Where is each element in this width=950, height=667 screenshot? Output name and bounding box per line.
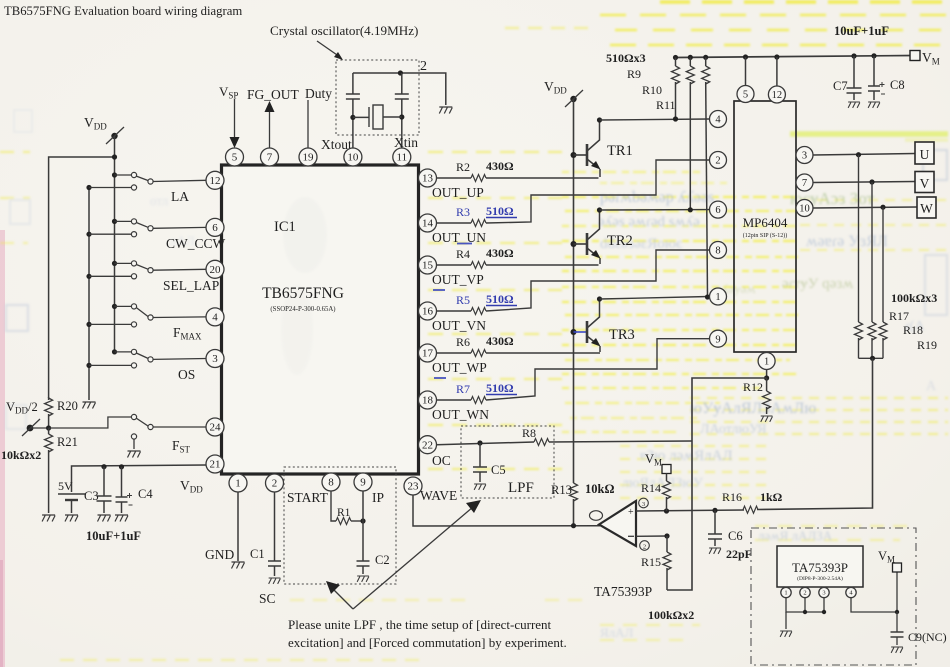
svg-text:Please unite LPF , the time se: Please unite LPF , the time setup of [di… [288, 617, 552, 632]
capacitor C6 [714, 510, 716, 534]
svg-text:Crystal oscillator(4.19MHz): Crystal oscillator(4.19MHz) [270, 23, 418, 38]
svg-text:ǝʎǝs əʍɾǝd sʍʎə: ǝʎǝs əʍɾǝd sʍʎə [598, 214, 700, 230]
svg-text:LPF: LPF [508, 480, 534, 496]
svg-text:5: 5 [743, 90, 748, 101]
svg-text:C7: C7 [833, 79, 848, 93]
svg-text:MP6404: MP6404 [743, 215, 788, 230]
ground rail C [42, 515, 55, 522]
junction V sense [869, 179, 874, 184]
pin 15 [419, 256, 437, 274]
svg-text:R14: R14 [641, 481, 661, 495]
svg-text:люЯлАЛЗюУ: люЯлАЛЗюУ [622, 476, 703, 491]
MP pin 3 right [796, 147, 813, 164]
IC MP6404 body [734, 101, 796, 352]
svg-text:R7: R7 [456, 382, 470, 396]
wire comparator plus input [636, 510, 744, 511]
wire MP pin7 to V [813, 182, 915, 183]
crystal oscillator dashed box [336, 60, 419, 135]
ground C8 [868, 102, 880, 108]
wire MP pin12 riser [774, 54, 779, 59]
svg-text:17: 17 [422, 348, 434, 360]
svg-text:24: 24 [210, 422, 222, 434]
svg-text:R1: R1 [337, 507, 351, 519]
svg-text:R12: R12 [743, 380, 763, 394]
svg-text:(12pin SIP (S-12)): (12pin SIP (S-12)) [743, 232, 787, 239]
svg-text:(SSOP24-P-300-0.65A): (SSOP24-P-300-0.65A) [270, 306, 335, 313]
svg-text:C4: C4 [138, 487, 153, 501]
svg-text:R4: R4 [456, 247, 470, 261]
capacitor C9 [896, 612, 898, 632]
wire V_M top bus [676, 56, 914, 58]
svg-text:OUT_WP: OUT_WP [432, 360, 487, 375]
wire TR1 collector to MP pin4 [600, 119, 710, 120]
wire pin8 down [331, 491, 336, 521]
svg-text:отл: отл [150, 193, 169, 208]
svg-text:10kΩ: 10kΩ [585, 482, 614, 496]
resistor R16 [743, 506, 758, 513]
wire out row OUT_UN left part [437, 222, 472, 224]
wire out row OUT_VP left part [437, 264, 472, 266]
FG_OUT arrow out of pin 7 [265, 101, 275, 112]
svg-text:лəʍЯ лАЛЗА: лəʍЯ лАЛЗА [758, 528, 833, 543]
scan edge stain [0, 230, 5, 667]
svg-text:8: 8 [715, 246, 720, 257]
switch S1 row [112, 172, 117, 177]
junction R10 pin6 wire [688, 207, 693, 212]
svg-text:C6: C6 [728, 529, 743, 543]
resistor R9 [673, 55, 678, 60]
pin 17 [419, 344, 437, 362]
ground C2 [357, 576, 369, 582]
pin 13 [419, 169, 437, 187]
pin 24 [206, 418, 224, 436]
switch S6 F_ST [49, 417, 132, 428]
svg-text:GND: GND [205, 547, 234, 562]
switch S2 row [112, 219, 117, 224]
svg-text:SEL_LAP: SEL_LAP [163, 278, 219, 293]
wire crystal top bus [353, 73, 446, 105]
capacitor C2 [362, 491, 364, 561]
wire pin21 supply [72, 465, 207, 492]
capacitor xtal right [401, 73, 403, 94]
svg-text:1: 1 [715, 292, 720, 303]
svg-text:11: 11 [397, 152, 408, 164]
TA pin 3 [823, 586, 825, 589]
pin 9 [354, 473, 372, 491]
svg-text:SC: SC [259, 591, 276, 606]
scan artifact blue marks [433, 244, 472, 379]
svg-text:C9(NC): C9(NC) [908, 630, 947, 644]
wire TA pin4 to V_M [851, 573, 897, 613]
wire out row OUT_VN left part [437, 310, 472, 312]
wire WAVE to comparator [413, 495, 600, 526]
wire TR2 collector to MP pin6 [600, 209, 710, 211]
svg-text:R6: R6 [456, 335, 470, 349]
svg-text:А: А [926, 379, 937, 394]
svg-text:OS: OS [178, 367, 195, 382]
wire out row OUT_UP left part [437, 177, 472, 179]
svg-text:4: 4 [715, 115, 721, 126]
TA pin 4 [850, 586, 852, 589]
ground TA [780, 631, 792, 637]
resistor R3 [471, 220, 486, 227]
svg-text:TB6575FNG Evaluation board wir: TB6575FNG Evaluation board wiring diagra… [4, 4, 242, 18]
svg-text:C2: C2 [375, 553, 390, 567]
svg-text:1: 1 [764, 357, 769, 368]
svg-text:excitation] and [Forced commut: excitation] and [Forced commutation] by … [288, 635, 567, 650]
pin 5 [226, 148, 244, 166]
wire OUT_UN to MP pin2 [486, 160, 709, 223]
svg-text:CW_CCW: CW_CCW [166, 236, 226, 251]
MP pin 9 left [710, 330, 727, 347]
underline mark R5 [486, 305, 517, 307]
svg-text:100kΩx3: 100kΩx3 [891, 291, 937, 305]
ground pin1 [232, 562, 245, 569]
resistor R2 [471, 175, 486, 182]
transistor TR2 [571, 241, 577, 247]
svg-text:5: 5 [232, 152, 238, 164]
svg-text:TR2: TR2 [607, 233, 633, 249]
ground battery [65, 515, 78, 522]
wire TA pins to ground bus [786, 598, 824, 613]
switch S3 row [112, 261, 117, 266]
TA pin 1 [785, 586, 787, 589]
svg-text:23: 23 [408, 481, 420, 493]
svg-text:7: 7 [267, 152, 273, 164]
svg-text:2: 2 [272, 478, 278, 490]
capacitor C4 electrolytic [121, 467, 123, 497]
scan smudge inside IC1 [281, 197, 327, 375]
svg-text:TA75393P: TA75393P [792, 560, 848, 575]
junction xtal left [350, 115, 355, 120]
junction R13 / wave [571, 523, 576, 528]
MP pin 2 left [710, 152, 727, 169]
svg-text:R5: R5 [456, 293, 470, 307]
svg-text:16: 16 [422, 306, 434, 318]
svg-text:21: 21 [210, 459, 221, 471]
svg-text:10: 10 [799, 204, 810, 215]
wire OUT_WN to MP pin9 [486, 339, 710, 400]
V_SP arrow into pin 5 [234, 99, 236, 139]
svg-text:R16: R16 [722, 490, 742, 504]
svg-text:C8: C8 [890, 78, 905, 92]
wire OC line cont [549, 441, 692, 442]
svg-text:2: 2 [803, 590, 806, 597]
IC U-IC1 TB6575FNG body [222, 165, 419, 474]
svg-text:15: 15 [422, 260, 434, 272]
svg-text:10: 10 [347, 152, 359, 164]
resistor R4 [471, 262, 486, 269]
svg-text:2: 2 [643, 544, 646, 551]
svg-text:U: U [920, 147, 930, 162]
switch S4 row [112, 304, 117, 309]
svg-text:IC1: IC1 [274, 219, 296, 235]
MP pin 6 left [710, 201, 727, 218]
junction R11 pin1 wire [705, 294, 710, 299]
wire comparator minus input [636, 535, 667, 537]
svg-text:C1: C1 [250, 547, 265, 561]
MP pin 10 right [796, 200, 813, 217]
svg-text:1kΩ: 1kΩ [760, 490, 783, 504]
svg-text:R18: R18 [903, 323, 923, 337]
pin 10 [344, 148, 362, 166]
pin 12 [206, 171, 224, 189]
svg-text:22: 22 [422, 439, 433, 451]
svg-text:430Ω: 430Ω [486, 159, 514, 173]
svg-text:10kΩx2: 10kΩx2 [1, 448, 41, 462]
wire TR3 collector to MP pin1 [600, 297, 710, 300]
junction C6 [712, 508, 717, 513]
svg-text:R8: R8 [522, 426, 536, 440]
svg-text:C5: C5 [491, 463, 506, 477]
junction crystal bus [398, 70, 403, 75]
wire V sense drop [871, 182, 873, 322]
pin 14 [419, 214, 437, 232]
junction C4 [119, 464, 124, 469]
svg-text:R2: R2 [456, 160, 470, 174]
annotation arrow to LPF box [353, 507, 473, 609]
wire OUT_VN to MP pin8 [486, 250, 709, 311]
junction C9 [895, 610, 899, 614]
pin 6 [206, 218, 224, 236]
resistor R19 [879, 322, 887, 340]
resistor R15 [666, 536, 668, 552]
capacitor C1 [274, 492, 276, 561]
ground C1 [269, 578, 281, 584]
resistor R21 [48, 428, 50, 434]
wire rail B (lower contacts rail) [88, 188, 90, 400]
underline mark R3 [486, 217, 517, 219]
ground rail B [83, 402, 96, 409]
svg-text:9: 9 [360, 477, 366, 489]
svg-text:12: 12 [772, 90, 783, 101]
svg-text:R9: R9 [627, 67, 641, 81]
svg-text:Duty: Duty [305, 86, 332, 101]
wire MP pin5 riser [743, 54, 748, 59]
wire MP pin10 to W [813, 207, 918, 208]
resistor R8 [534, 439, 549, 446]
svg-text:1: 1 [784, 590, 787, 597]
capacitor C8 electrolytic [871, 53, 876, 58]
V_M terminal top [910, 51, 920, 61]
svg-text:20: 20 [210, 264, 222, 276]
svg-text:510Ω: 510Ω [486, 204, 514, 218]
svg-text:3: 3 [212, 353, 218, 365]
IC TA75393P body [777, 546, 863, 587]
junction TA bus a [803, 610, 807, 614]
junction R1/pin9 [360, 518, 365, 523]
svg-text:R3: R3 [456, 205, 470, 219]
ground R12 [761, 416, 773, 422]
junction R14 bottom [664, 508, 669, 513]
junction W sense [880, 205, 885, 210]
wire Duty to pin 19 [307, 100, 309, 148]
resistor R17 [855, 322, 863, 340]
svg-text:1: 1 [235, 478, 241, 490]
svg-text:OUT_VP: OUT_VP [432, 272, 484, 287]
wire sense common bus [859, 357, 884, 359]
wire rail A to far-left rail C [49, 157, 115, 400]
transistor TR1 [571, 152, 577, 158]
svg-text:22pF: 22pF [726, 547, 752, 561]
wire rail A (VDD selector rail) [114, 136, 116, 352]
pin 2 [266, 474, 284, 492]
wire sense common down to R16 [757, 358, 873, 509]
wire U sense drop [858, 155, 860, 322]
svg-text:R13: R13 [551, 483, 572, 497]
resistor R1 [336, 518, 351, 525]
svg-text:Xtin: Xtin [394, 135, 418, 150]
svg-text:V: V [920, 176, 930, 191]
svg-text:LA: LA [171, 189, 189, 204]
wire OUT_VP to TR2 emitter [486, 264, 599, 266]
svg-text:9: 9 [715, 334, 720, 345]
pin 21 [206, 455, 224, 473]
svg-text:ʍəɐɾǝ УɜЯЛ: ʍəɐɾǝ УɜЯЛ [806, 233, 888, 250]
pin 8 [322, 473, 340, 491]
wire OC line [437, 442, 535, 445]
ground C4 [115, 515, 128, 522]
ground C7 [848, 102, 860, 108]
W terminal box [917, 197, 936, 218]
capacitor C5 [479, 443, 481, 467]
wire OUT_WP to TR3 emitter [486, 352, 600, 354]
pin 3 [206, 350, 224, 368]
pin 20 [206, 260, 224, 278]
svg-text:OUT_UP: OUT_UP [432, 185, 484, 200]
svg-text:430Ω: 430Ω [486, 334, 514, 348]
junction R9 pin4 wire [673, 116, 678, 121]
svg-text:R21: R21 [57, 435, 78, 449]
svg-text:10uF+1uF: 10uF+1uF [834, 24, 889, 38]
ground C6 [709, 548, 721, 554]
pin 7 [261, 148, 279, 166]
svg-text:8: 8 [328, 477, 334, 489]
junction rail A / rail C branch [112, 154, 117, 159]
annotation arrow to START/IP box [331, 587, 353, 609]
svg-text:юУɏАлЯЛЗАʍЛю: юУɏАлЯЛЗАʍЛю [690, 400, 816, 417]
svg-text:(DIP8-P-300-2.54A): (DIP8-P-300-2.54A) [797, 575, 843, 582]
svg-text:R10: R10 [642, 83, 662, 97]
svg-text:510Ω: 510Ω [486, 381, 514, 395]
svg-text:C3: C3 [84, 489, 99, 503]
svg-text:6: 6 [212, 222, 218, 234]
svg-text:2: 2 [715, 156, 720, 167]
pin 19 [299, 148, 317, 166]
wire TA ground stub [785, 612, 787, 629]
svg-text:10uF+1uF: 10uF+1uF [86, 529, 141, 543]
op-amp U2 TA75393P comparator [599, 501, 636, 546]
svg-text:3: 3 [822, 590, 825, 597]
svg-text:18: 18 [422, 395, 434, 407]
TA75393P dash-dot box [751, 528, 916, 665]
svg-text:510Ωx3: 510Ωx3 [606, 51, 646, 65]
junction C3 [101, 464, 106, 469]
resistor R18 [868, 322, 876, 340]
V terminal box [915, 172, 934, 193]
svg-text:TR3: TR3 [609, 327, 635, 343]
crystal oscillator pointer arrow [317, 41, 340, 57]
svg-text:2: 2 [420, 59, 427, 74]
svg-text:TB6575FNG: TB6575FNG [262, 285, 344, 302]
capacitor xtal left [352, 73, 354, 94]
pin 11 [393, 148, 411, 166]
junction U sense [856, 152, 861, 157]
transistor TR3 [571, 329, 577, 335]
svg-text:6: 6 [715, 205, 720, 216]
svg-text:TA75393P: TA75393P [594, 584, 652, 599]
svg-text:4: 4 [212, 312, 218, 324]
wire out row OUT_WP left part [437, 352, 472, 354]
svg-text:R19: R19 [917, 338, 937, 352]
resistor R5 [471, 308, 486, 315]
junction C5 [477, 440, 482, 445]
svg-text:R20: R20 [57, 399, 78, 413]
switch S5 row [112, 349, 117, 354]
resistor R6 [471, 350, 486, 357]
pin 23 [404, 477, 422, 495]
svg-text:R11: R11 [656, 98, 676, 112]
resistor R13 [570, 483, 578, 501]
junction R15 top [664, 533, 669, 538]
wire TR base rail / R13 rail [573, 99, 575, 483]
svg-text:14: 14 [422, 218, 434, 230]
svg-text:100kΩx2: 100kΩx2 [648, 608, 694, 622]
V_DD tap with slash [111, 133, 117, 139]
pin 4 [206, 308, 224, 326]
TA pin 2 [804, 586, 806, 589]
wire W sense drop [882, 207, 884, 322]
wire pin1 to ground [237, 492, 239, 561]
junction sense common [870, 356, 875, 361]
svg-text:510Ω: 510Ω [486, 292, 514, 306]
junction rail C F_ST branch [46, 425, 51, 430]
junction MP bottom node [764, 375, 769, 380]
pin 18 [419, 391, 437, 409]
wire OUT_UP to TR1 emitter [486, 177, 599, 179]
pin 16 [419, 302, 437, 320]
F_ST lower contact to ground [131, 434, 136, 439]
svg-text:12: 12 [210, 175, 221, 187]
ground C3 [98, 515, 111, 522]
capacitor C3 [103, 467, 105, 496]
svg-text:ЯлАЛ: ЯлАЛ [600, 625, 634, 640]
MP pin 8 left [710, 242, 727, 259]
dotted box START/IP [284, 467, 396, 584]
wire out row OUT_WN left part [437, 399, 472, 401]
ground C9 [891, 647, 903, 653]
svg-text:W: W [920, 201, 933, 216]
wire MP bottom node to OC line [667, 378, 767, 590]
svg-text:3: 3 [642, 501, 645, 508]
underline mark R7 [486, 394, 517, 396]
svg-text:R17: R17 [889, 309, 909, 323]
svg-text:3: 3 [802, 151, 807, 162]
resistor R20 [48, 397, 50, 398]
svg-text:START: START [287, 490, 329, 505]
ground crystal [439, 107, 452, 114]
svg-text:19: 19 [303, 152, 315, 164]
pin 22 [419, 436, 437, 454]
svg-text:R15: R15 [641, 555, 661, 569]
svg-text:13: 13 [422, 173, 434, 185]
MP pin 1 bottom [766, 352, 768, 354]
svg-text:WAVE: WAVE [420, 488, 457, 503]
svg-text:OC: OC [432, 453, 451, 468]
svg-text:430Ω: 430Ω [486, 246, 514, 260]
svg-text:+: + [628, 507, 634, 518]
resistor R14 [666, 474, 668, 482]
